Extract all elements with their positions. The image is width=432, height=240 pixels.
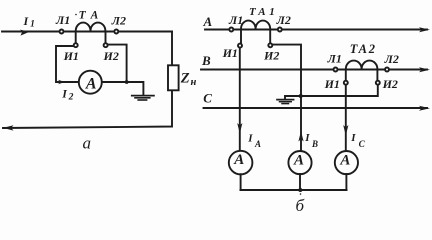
svg-text:А: А xyxy=(293,152,304,168)
svg-text:В: В xyxy=(201,53,211,68)
svg-text:А: А xyxy=(233,152,244,168)
svg-text:Т: Т xyxy=(79,10,87,22)
svg-text:И1: И1 xyxy=(222,46,238,60)
svg-text:И1: И1 xyxy=(324,77,340,91)
svg-text:Л2: Л2 xyxy=(276,13,291,27)
svg-text:2: 2 xyxy=(368,42,375,56)
svg-text:И2: И2 xyxy=(263,48,279,62)
svg-text:Л2: Л2 xyxy=(111,14,126,28)
svg-text:Л2: Л2 xyxy=(384,52,399,66)
svg-text:А: А xyxy=(339,152,350,168)
svg-text:1: 1 xyxy=(269,6,275,18)
svg-text:А: А xyxy=(358,42,367,56)
svg-text:Л1: Л1 xyxy=(327,51,342,65)
svg-text:И1: И1 xyxy=(63,49,79,63)
svg-text:И2: И2 xyxy=(382,77,398,91)
svg-text:б: б xyxy=(296,196,305,214)
svg-text:А: А xyxy=(257,6,265,18)
svg-text:И2: И2 xyxy=(103,49,119,63)
svg-text:А: А xyxy=(85,75,97,92)
svg-text:а: а xyxy=(83,134,92,153)
svg-text:А: А xyxy=(203,14,213,29)
svg-text:Т: Т xyxy=(350,42,359,56)
svg-text:Л1: Л1 xyxy=(55,13,70,27)
svg-text:А: А xyxy=(90,10,99,22)
svg-text:Л1: Л1 xyxy=(228,13,243,27)
svg-text:С: С xyxy=(203,91,212,106)
